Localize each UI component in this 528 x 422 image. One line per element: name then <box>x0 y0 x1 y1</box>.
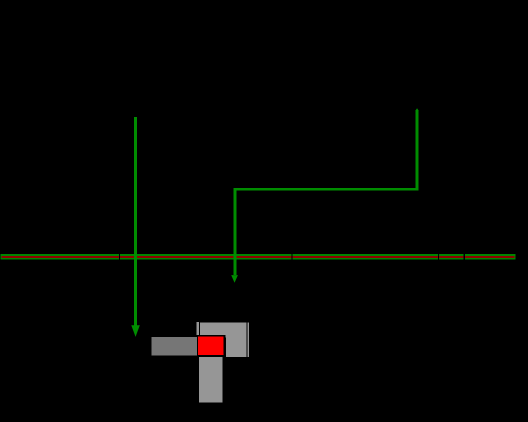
arrow A (left, vertical, pointing down) <box>131 117 140 337</box>
top-right gray block <box>200 322 247 357</box>
arrowhead B <box>231 275 238 283</box>
track tick 2 (dim) <box>291 254 293 260</box>
red cell border (right part, offset down leaving gray notch) <box>223 337 226 357</box>
track tick 3 <box>438 254 439 260</box>
wire: vertical segment middle <box>233 191 236 275</box>
thin gray strip right <box>248 322 250 356</box>
wire: small top tip <box>415 108 418 110</box>
track tick 1 <box>119 254 120 260</box>
gray notch at top-right corner of red cell <box>225 335 226 337</box>
wire: horizontal segment <box>233 188 418 191</box>
red cell <box>198 336 223 354</box>
wire: vertical segment right <box>415 110 418 191</box>
track tick 4 <box>464 254 465 260</box>
bottom gray block <box>199 357 222 402</box>
crossing sprite <box>151 322 249 403</box>
left gray block <box>151 337 197 356</box>
thin gray strip left <box>197 322 199 335</box>
arrow B (right L-shaped polyline, pointing down) <box>231 108 419 283</box>
red cell border (top/left part) <box>197 335 226 357</box>
track line (green rail with dark red core) <box>0 254 515 260</box>
